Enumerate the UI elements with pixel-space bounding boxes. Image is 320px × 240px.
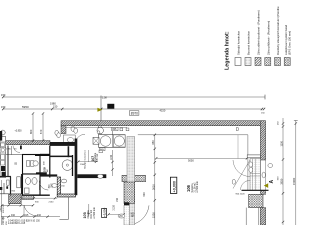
svg-text:Bouraná konstrukce: Bouraná konstrukce	[247, 31, 251, 55]
door niche dotted	[250, 159, 260, 191]
oval label right	[268, 164, 273, 168]
vert dim line x43	[42, 114, 44, 142]
dark wall segment y144	[50, 142, 76, 146]
thick wall top of 105	[35, 155, 50, 157]
svg-text:3010: 3010	[151, 184, 155, 190]
tiny OS bits	[99, 150, 103, 153]
inner face line corridor top wall	[66, 126, 127, 128]
right wall inner faces lines at opening	[259, 160, 261, 190]
left annex top wall band (hatched)	[4, 141, 50, 145]
inner beam line room 106 top	[138, 134, 248, 136]
exterior wall strip below (hatched)	[260, 208, 265, 225]
walls around pillar	[0, 193, 9, 195]
svg-text:ZO: ZO	[119, 214, 123, 218]
door arc left room	[24, 205, 38, 216]
dim line y198 right of pillar	[22, 197, 58, 199]
dark room B	[23, 174, 41, 195]
svg-text:+0,000: +0,000	[172, 181, 176, 192]
horiz wall y156 x55-72	[50, 156, 72, 158]
svg-text:5050: 5050	[188, 159, 194, 163]
black counter bar	[36, 172, 47, 176]
vert dim line x33	[32, 114, 34, 142]
dark room A (WC)	[23, 155, 41, 175]
svg-text:150 900: 150 900	[2, 216, 5, 225]
svg-text:+0,000: +0,000	[103, 207, 107, 217]
vertical dim line x115 in room	[112, 150, 114, 176]
svg-text:1970: 1970	[52, 182, 54, 188]
section label box 08	[107, 104, 114, 109]
dark horiz wall y194-197	[57, 194, 75, 197]
top exterior wall band (hatched)	[61, 121, 265, 126]
hatched part of strip	[124, 182, 135, 203]
right exterior wall upper (hatched)	[260, 121, 265, 160]
section line 08	[100, 96, 102, 137]
svg-text:800: 800	[29, 129, 33, 134]
small labels below band	[112, 127, 118, 130]
exterior stair block (crosshatch)	[249, 194, 263, 207]
shaft square with X	[93, 137, 99, 144]
oval left	[232, 179, 235, 184]
dark vertical wall x68	[68, 146, 70, 157]
svg-text:900 2020: 900 2020	[236, 193, 246, 195]
wall right of shower	[72, 155, 74, 176]
thin verticals to bottom	[245, 208, 247, 225]
dimension line upper y=97	[2, 95, 265, 100]
left room walls	[7, 146, 9, 177]
svg-text:1150: 1150	[280, 140, 284, 146]
svg-text:1530: 1530	[151, 212, 155, 218]
legend swatch 3: Zdivo zděné-dozdívané	[255, 58, 261, 66]
dark wall under shower room	[40, 174, 57, 176]
vertical dimension line x155	[154, 135, 156, 225]
legend swatch 1: Stávající konstrukce	[235, 58, 241, 66]
door swing arc upper	[233, 160, 250, 177]
boxed label 8970	[129, 111, 139, 115]
svg-text:2130: 2130	[49, 201, 55, 203]
cabinet box above door	[247, 155, 260, 158]
svg-text:670: 670	[39, 129, 43, 134]
svg-text:900 150: 900 150	[3, 204, 5, 213]
svg-text:e=500 mm: e=500 mm	[93, 207, 96, 218]
svg-text:900: 900	[143, 192, 146, 197]
legend swatch 5: Dozdívky stávajících konstrukcí	[275, 58, 281, 66]
big vertical thick wall x75.5	[75, 139, 78, 196]
svg-text:Zdivo příčkové - (Porotherm): Zdivo příčkové - (Porotherm)	[266, 21, 270, 55]
ZO oval	[52, 184, 58, 188]
svg-text:2-040 B28 1-015: 2-040 B28 1-015	[8, 223, 26, 225]
svg-text:108: 108	[42, 167, 46, 172]
ZO oval pair left of corner	[55, 130, 59, 135]
svg-text:Stávající konstrukce: Stávající konstrukce	[237, 30, 241, 55]
svg-text:150: 150	[116, 197, 119, 202]
svg-text:2130: 2130	[113, 205, 116, 211]
door arc below corner	[75, 134, 85, 144]
ZO oval pair right below band	[97, 127, 103, 133]
wall piece below threshold	[260, 191, 265, 195]
verticals from band to fixtures	[98, 126, 100, 135]
svg-text:1015: 1015	[23, 214, 29, 217]
+0,000 box room 105	[102, 209, 107, 218]
svg-text:A: A	[269, 180, 275, 184]
ZO oval on thick wall	[97, 174, 103, 178]
svg-text:15360: 15360	[292, 177, 296, 185]
svg-text:Dozdívky stávajících konstrukc: Dozdívky stávajících konstrukcí (Porothe	[276, 6, 280, 55]
door leaves closed lines	[252, 159, 254, 191]
dark hatched wall x57-60	[57, 177, 60, 196]
left edge black marks	[0, 187, 2, 190]
svg-text:4.50 m2: 4.50 m2	[97, 153, 99, 162]
left edge vertical dim	[1, 180, 3, 225]
svg-text:Legenda hmot:: Legenda hmot:	[225, 31, 231, 70]
hatched band right of pillar	[22, 196, 34, 200]
small door arc from annex band	[13, 146, 20, 153]
shower circle	[62, 160, 73, 171]
svg-text:WC: WC	[47, 168, 49, 172]
svg-text:150: 150	[1, 105, 6, 109]
vertical connector wall below corner	[61, 126, 66, 134]
section arrow triangle (olive)	[97, 108, 102, 112]
svg-text:850: 850	[152, 140, 155, 145]
bottom-left dimension lines	[1, 204, 33, 206]
svg-text:08: 08	[109, 105, 113, 109]
wall strip between corridor and 106 (dotted)	[127, 137, 135, 226]
svg-text:+3,950: +3,950	[15, 131, 23, 133]
fixtures row (laundry counter)	[99, 135, 126, 148]
dimension line lower y=109	[2, 108, 265, 110]
ZO oval label	[118, 214, 125, 218]
corridor inner walls	[17, 177, 21, 188]
interior dim line 107	[78, 161, 96, 163]
hatched pillar block bottom-left	[9, 194, 21, 204]
svg-text:8970: 8970	[131, 111, 138, 115]
legend swatch 2: Bouraná konstrukce	[245, 58, 251, 66]
small box top-left of room	[236, 128, 238, 131]
svg-text:e=500 mm: e=500 mm	[196, 181, 199, 192]
right dim line inner x283	[282, 118, 284, 225]
oval on wall	[262, 172, 265, 178]
svg-text:1580: 1580	[6, 149, 12, 151]
room 108	[40, 154, 50, 156]
svg-text:150: 150	[1, 93, 6, 97]
svg-text:3630: 3630	[280, 178, 284, 184]
washbasin rect	[67, 138, 74, 143]
door threshold thick line	[242, 189, 269, 191]
svg-text:5950: 5950	[22, 105, 29, 109]
legend swatch 6: zateplovací systém fasád	[284, 58, 290, 66]
bottom dark wall of rooms	[23, 194, 50, 196]
ZO oval pair below band	[71, 126, 75, 131]
door leaf diagonal	[233, 160, 250, 189]
svg-text:4150: 4150	[160, 109, 166, 113]
inner line right wall	[247, 135, 249, 191]
svg-text:Stávající nosná kce: Stávající nosná kce	[84, 149, 87, 169]
ZO ovals pair at door	[249, 162, 253, 167]
svg-text:1560: 1560	[80, 164, 86, 166]
svg-text:1,08: 1,08	[102, 97, 107, 100]
svg-text:910: 910	[11, 214, 16, 217]
svg-text:910: 910	[37, 214, 42, 217]
interior dim line y158	[156, 157, 247, 159]
left edge fixtures column	[0, 130, 5, 135]
svg-text:1150: 1150	[110, 154, 113, 160]
interior dim line x88.6	[88, 150, 90, 162]
svg-text:(EPS Grey 150 mm): (EPS Grey 150 mm)	[287, 31, 291, 55]
legend swatch 4: Zdivo příčkové	[265, 58, 271, 66]
door arc corridor bottom	[135, 205, 149, 223]
svg-text:Zdivo zděné-dozdívané - (Porot: Zdivo zděné-dozdívané - (Porotherm)	[257, 10, 261, 55]
svg-text:805: 805	[112, 128, 117, 131]
svg-text:1980: 1980	[0, 206, 2, 212]
L hook stair arrow	[67, 197, 69, 219]
door swing arc lower	[241, 180, 251, 190]
door arc room 105 upper	[39, 181, 48, 190]
right dim line outer x295.8	[295, 121, 297, 226]
band left end cap	[0, 131, 2, 141]
svg-text:2-040 B28 1-015 B28 9-10: 2-040 B28 1-015 B28 9-10	[8, 220, 36, 222]
wardrobe line	[237, 135, 239, 159]
white niche box right of corner	[64, 135, 76, 144]
hatched block top of corridor	[122, 175, 146, 181]
thick horiz wall y176	[77, 174, 106, 178]
+0,000 box room 106	[170, 177, 176, 193]
svg-text:150: 150	[53, 105, 58, 109]
